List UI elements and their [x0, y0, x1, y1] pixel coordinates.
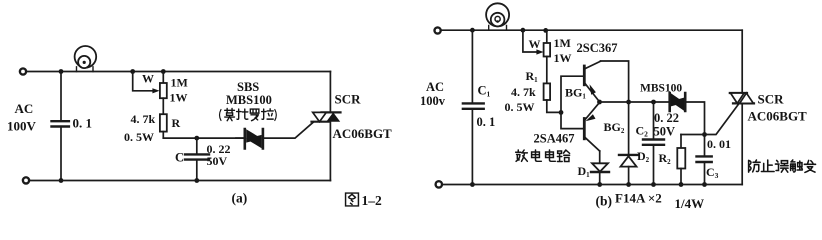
node: C2 top junction (b): [651, 100, 656, 105]
防: [749, 160, 760, 172]
wire SBS to gate (a): [263, 122, 314, 138]
svg-text:100V: 100V: [7, 119, 37, 134]
lamp (a): [75, 46, 97, 72]
potentiometer W 1M 1W (a): [160, 72, 167, 115]
svg-text:1M: 1M: [171, 76, 188, 90]
托: [237, 109, 248, 119]
svg-text:4. 7k: 4. 7k: [131, 112, 156, 126]
svg-text:MBS100: MBS100: [226, 93, 272, 107]
value 1M 1W (b): [554, 36, 572, 65]
node: C1(a) bottom junction: [59, 178, 64, 183]
node: wiper junction (b): [521, 28, 526, 33]
resistor R1 4.7k 0.5W (b): [544, 83, 561, 112]
svg-text:AC: AC: [15, 101, 34, 116]
node: C1(a) top junction: [59, 69, 64, 74]
wire diac to corner (b): [685, 102, 704, 156]
capacitor C 0.22 50V (a): [185, 138, 209, 180]
发: [804, 160, 815, 172]
电: [532, 150, 542, 161]
wire bottom (b): [442, 184, 742, 186]
罗: [250, 109, 259, 121]
wire to BG2 base (b): [561, 112, 583, 128]
value 0.22 50V (a): [207, 142, 231, 168]
止: [761, 160, 774, 171]
terminal top-left (a): [20, 68, 26, 74]
node: C1 bottom junction (b): [470, 182, 475, 187]
SBS MBS100 diac symbol (a): [236, 129, 263, 149]
wire top (b): [441, 29, 742, 31]
svg-text:W: W: [529, 37, 541, 51]
capacitor C1 0.1 (b): [463, 30, 484, 184]
svg-text:2SA467: 2SA467: [534, 132, 575, 146]
wire wiper (a): [133, 72, 156, 91]
wiper arrowhead (b): [536, 49, 543, 54]
svg-text:0. 5W: 0. 5W: [505, 100, 535, 114]
node: cap C bottom junction (a): [194, 178, 199, 183]
node: D1 bottom junction (b): [597, 182, 602, 187]
wire wiper (b): [523, 30, 536, 52]
wire to BG1 base (b): [561, 76, 583, 112]
value 1M 1W (a): [170, 76, 188, 105]
svg-text:0. 1: 0. 1: [477, 115, 496, 129]
node: gate junction (b): [702, 132, 707, 137]
node: pot top junction (a): [161, 69, 166, 74]
capacitor C3 0.01 (b): [697, 156, 712, 184]
svg-text:4. 7k: 4. 7k: [511, 85, 536, 99]
svg-text:C: C: [175, 151, 184, 165]
node: C1 top junction (b): [470, 28, 475, 33]
wire mid (b): [600, 101, 670, 103]
terminal top-left (b): [435, 27, 441, 33]
wire BG1 collector rail (b): [601, 61, 629, 155]
resistor R 4.7k 0.5W (a): [160, 114, 167, 138]
svg-text:SBS: SBS: [237, 80, 259, 94]
放: [516, 150, 528, 161]
terminal bottom-left (b): [436, 181, 442, 187]
wire gate to SCR (b): [705, 104, 739, 134]
wire bottom (a): [29, 180, 330, 182]
svg-text:50V: 50V: [654, 125, 676, 139]
wire R2 top (b): [681, 134, 705, 136]
svg-text:R: R: [172, 116, 181, 130]
MBS100 diac symbol (b): [670, 93, 686, 111]
wire right side (b): [741, 30, 743, 184]
note 放电电路 CJK (b): [516, 150, 570, 161]
resistor R2 (b): [677, 135, 685, 185]
svg-text:1M: 1M: [554, 36, 571, 50]
电: [546, 150, 556, 161]
diode D1 (b): [591, 151, 609, 185]
lamp (b): [486, 3, 509, 30]
node: pot top junction (b): [543, 28, 548, 33]
note 防止误触发 CJK (b): [749, 160, 816, 172]
node: wiper junction (a): [130, 69, 135, 74]
node: emitter junction (b): [597, 100, 602, 105]
node: C3 bottom junction (b): [702, 182, 707, 187]
svg-text:(a): (a): [232, 191, 248, 206]
svg-text:100v: 100v: [420, 94, 446, 108]
net label AC 100V (a): [7, 101, 37, 134]
svg-text:(b): (b): [596, 194, 613, 209]
transistor BG1 2SC367 (b): [584, 61, 600, 102]
svg-text:0. 5W: 0. 5W: [124, 130, 154, 144]
potentiometer W 1M 1W (b): [544, 30, 551, 83]
node: collector rail junction on mid wire (b): [626, 100, 631, 105]
svg-text:SCR: SCR: [758, 92, 785, 107]
capacitor 0.1 (a): [52, 72, 69, 181]
误: [775, 160, 788, 172]
svg-text:2SC367: 2SC367: [577, 41, 618, 55]
svg-text:1W: 1W: [170, 91, 188, 105]
svg-text:F14A ×2: F14A ×2: [615, 191, 662, 206]
wiper arrowhead (a): [152, 88, 159, 93]
net label AC 100V (b): [420, 80, 446, 108]
wire right side (a): [329, 72, 331, 181]
SCR triac symbol (a): [312, 112, 341, 121]
莫: [225, 109, 235, 121]
): [275, 110, 277, 121]
SCR triac symbol (b): [730, 93, 754, 103]
svg-text:AC06BGT: AC06BGT: [748, 109, 808, 124]
node: R2 bottom junction (b): [679, 182, 684, 187]
diode D2 (b): [619, 155, 638, 185]
part label SBS MBS100 (a): [226, 80, 272, 107]
svg-text:AC: AC: [426, 80, 444, 94]
触: [791, 160, 803, 172]
svg-text:1W: 1W: [554, 51, 572, 65]
svg-text:0. 01: 0. 01: [707, 137, 731, 151]
(: [220, 110, 222, 121]
svg-text:1/4W: 1/4W: [675, 196, 705, 211]
svg-text:0. 22: 0. 22: [654, 111, 679, 125]
capacitor C2 0.22 50V (b): [643, 102, 664, 185]
terminal bottom-left (a): [23, 177, 29, 183]
caption 图 1-2: [346, 193, 382, 208]
part label (莫托罗拉) CJK (a): [220, 109, 277, 121]
wire top (a): [26, 71, 330, 73]
node: base junction (b): [559, 110, 564, 115]
svg-text:50V: 50V: [207, 154, 228, 168]
svg-text:AC06BGT: AC06BGT: [333, 126, 393, 141]
svg-text:0. 1: 0. 1: [73, 116, 93, 131]
wire mid (a): [163, 137, 245, 139]
拉: [262, 109, 274, 119]
transistor BG2 2SA467 (b): [584, 103, 599, 152]
svg-text:SCR: SCR: [335, 92, 362, 107]
node: D2 bottom junction (b): [626, 182, 631, 187]
node: C2 bottom junction (b): [651, 182, 656, 187]
svg-text:1–2: 1–2: [362, 193, 383, 208]
路: [557, 150, 569, 161]
svg-text:W: W: [142, 72, 154, 86]
svg-text:MBS100: MBS100: [640, 83, 682, 95]
node: cap C junction (a): [194, 136, 199, 141]
